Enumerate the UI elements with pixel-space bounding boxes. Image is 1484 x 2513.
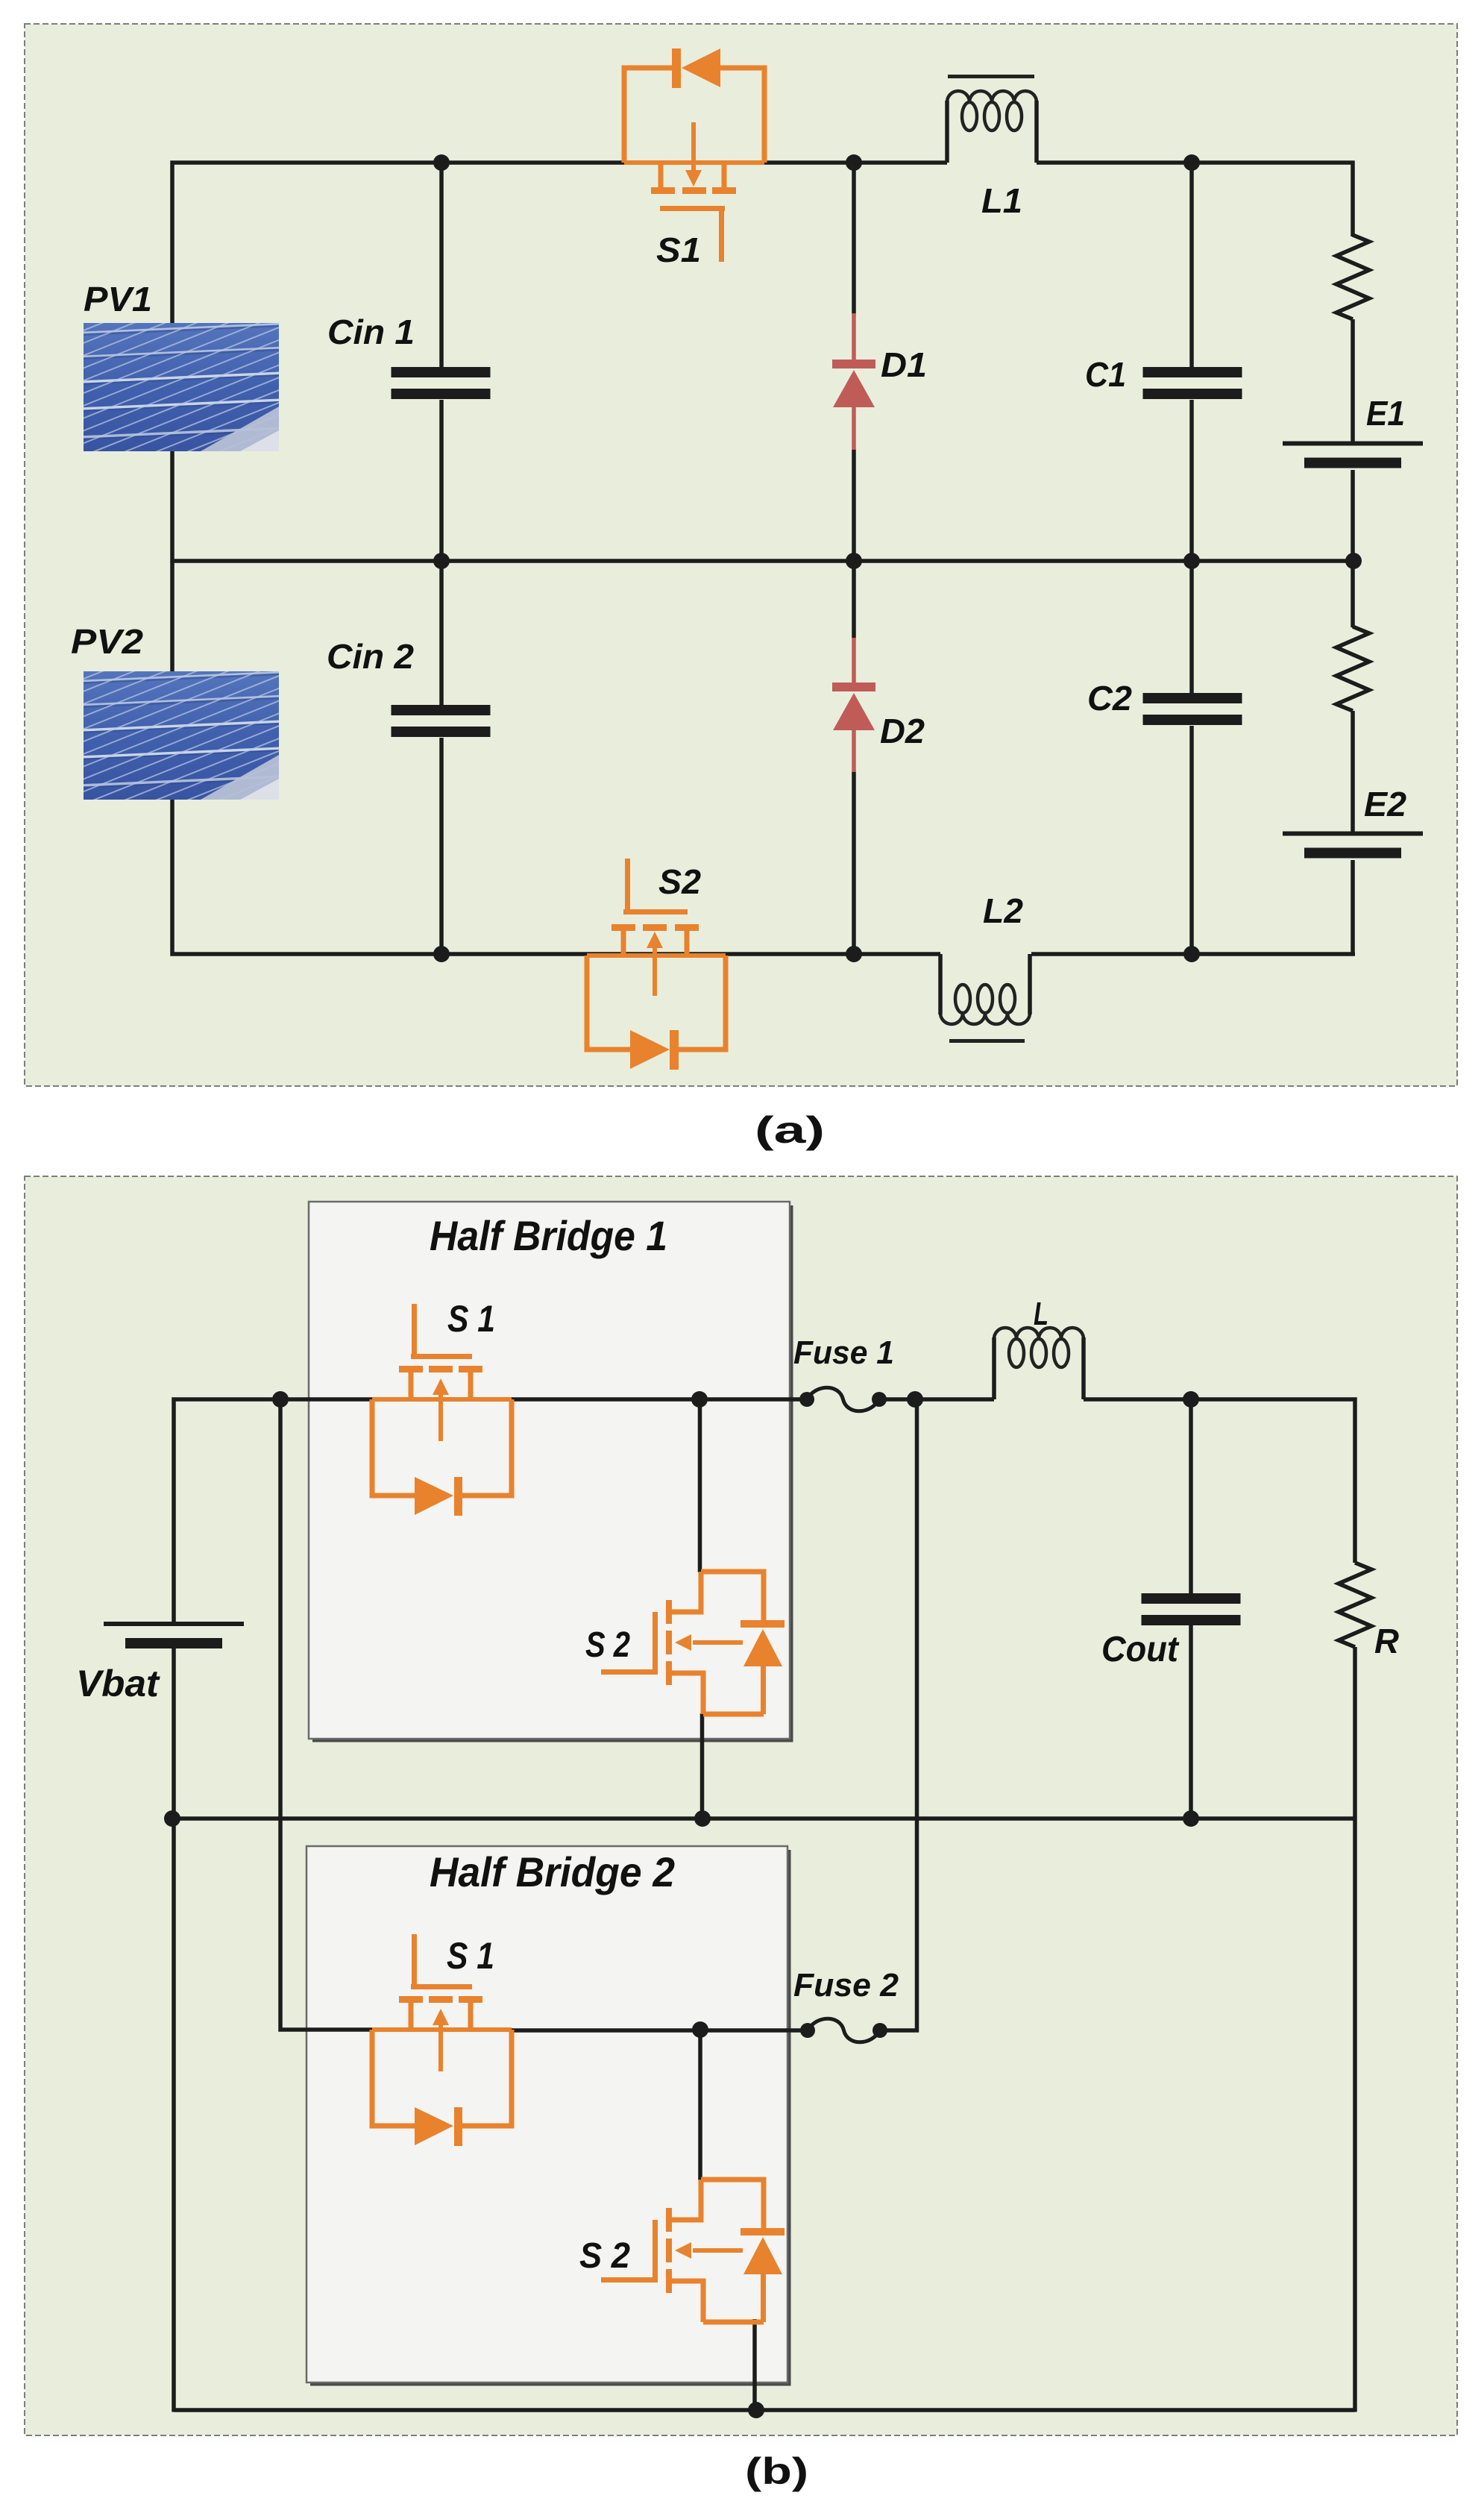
- PV1 solar panel image: [0, 313, 661, 462]
- svg-text:S 1: S 1: [447, 1298, 495, 1340]
- inductor L1 coil: [947, 91, 1037, 102]
- wire: Cout branch upper: [1189, 1399, 1193, 1594]
- diode D1: [852, 313, 856, 361]
- capacitor Cin2: [392, 705, 491, 715]
- node at (1227,1876): [907, 1391, 923, 1408]
- wire: left vertical PV2 bottom to bottom rail: [172, 798, 940, 954]
- node at (938,1876): [691, 1391, 708, 1408]
- diode D2: [852, 638, 856, 684]
- wire: C2 branch upper: [1189, 561, 1194, 694]
- node at (1014,3231): [748, 2402, 764, 2418]
- svg-text:L: L: [1034, 1296, 1048, 1332]
- wire: D1 branch lower black: [852, 449, 856, 561]
- svg-text:Cin 1: Cin 1: [327, 313, 415, 351]
- svg-text:Half Bridge 1: Half Bridge 1: [430, 1212, 667, 1259]
- node at (231,2438): [164, 1810, 180, 1827]
- svg-text:L2: L2: [983, 891, 1023, 930]
- svg-text:L1: L1: [981, 181, 1022, 220]
- resistor R: [1339, 1563, 1371, 1647]
- wire: Cout branch lower: [1189, 1625, 1193, 1819]
- wire: Cin2 branch upper: [439, 561, 444, 706]
- Half Bridge 2 box: [306, 1846, 787, 2382]
- svg-text:S 1: S 1: [447, 1935, 494, 1977]
- node at (1815,752): [1345, 553, 1362, 569]
- svg-text:PV2: PV2: [71, 622, 143, 661]
- node at (939,2721): [692, 2021, 708, 2038]
- PV2 solar panel image: [0, 661, 661, 810]
- capacitor Cout: [1142, 1593, 1241, 1604]
- battery E1: [1283, 442, 1423, 446]
- svg-text:S1: S1: [656, 230, 701, 269]
- wire: left vertical PV1 bottom to mid rail: [170, 451, 175, 562]
- wire: right branch E1 bottom: [1351, 470, 1355, 561]
- svg-text:E2: E2: [1364, 785, 1406, 823]
- wire: HB2 S2 source to bottom rail: [752, 2319, 757, 2410]
- svg-text:Vbat: Vbat: [76, 1663, 160, 1704]
- mosfet HB1 S1: [372, 1397, 512, 1402]
- svg-text:Half Bridge 2: Half Bridge 2: [430, 1848, 675, 1895]
- wire: left vertical mid rail to PV2 top: [170, 561, 175, 673]
- mosfet HB2 S1: [372, 2027, 512, 2032]
- capacitor C1: [1143, 367, 1242, 377]
- wire: right branch E2 bottom: [1351, 860, 1355, 956]
- node at (1598,752): [1183, 553, 1200, 569]
- capacitor C2: [1143, 693, 1242, 703]
- fuse Fuse1: [799, 1392, 814, 1407]
- wire: right branch E1 top: [1351, 161, 1355, 237]
- node at (1145,752): [846, 553, 862, 569]
- wire: D2 branch lower black: [852, 771, 856, 954]
- svg-text:S 2: S 2: [579, 2236, 630, 2276]
- mosfet HB2 S2: [701, 2180, 764, 2228]
- mosfet S1 with body diode: [624, 68, 673, 163]
- wire: mid rail: [172, 559, 1353, 563]
- Half Bridge 1 box: [309, 1202, 790, 1739]
- inductor L2 coil: [940, 1013, 1030, 1024]
- svg-text:R: R: [1374, 1622, 1399, 1660]
- inductor L2 core bar: [949, 1039, 1025, 1043]
- battery Vbat: [104, 1622, 244, 1626]
- mosfet HB1 S2: [701, 1572, 764, 1620]
- Half Bridge 1 box shadow: [312, 1205, 792, 1741]
- svg-text:Fuse 1: Fuse 1: [793, 1334, 894, 1371]
- wire: HB2 S2 drain: [698, 2030, 702, 2180]
- node at (592,752): [433, 553, 450, 569]
- wire: C1 branch lower: [1189, 400, 1194, 561]
- wire: bottom rail right of L2: [1031, 952, 1355, 956]
- wire: Cin1 branch upper: [439, 163, 444, 368]
- wire: C1 branch upper: [1189, 163, 1194, 368]
- svg-text:Cout: Cout: [1101, 1630, 1180, 1669]
- wire: top rail S1 to fuse1: [512, 1397, 807, 1402]
- battery E2: [1283, 832, 1423, 836]
- svg-text:S 2: S 2: [585, 1625, 630, 1665]
- resistor of E2 branch: [1336, 627, 1369, 711]
- wire: HB2 S1 to fuse2: [512, 2028, 808, 2033]
- wire: Cin2 branch lower: [439, 738, 444, 954]
- svg-text:(b): (b): [745, 2450, 808, 2492]
- svg-text:C1: C1: [1085, 355, 1126, 394]
- svg-text:E1: E1: [1366, 394, 1405, 433]
- svg-text:PV1: PV1: [84, 280, 152, 319]
- wire: C2 branch lower: [1189, 726, 1194, 954]
- wire: top rail between S1 and L1: [764, 160, 947, 165]
- inductor L coil: [994, 1328, 1084, 1339]
- node at (1145,1279): [846, 946, 862, 962]
- resistor of E1 branch: [1336, 235, 1369, 319]
- wire: top rail fuse1 to L: [879, 1397, 994, 1402]
- wire: top rail between L1 and right corner: [1037, 160, 1355, 165]
- node at (1598,1279): [1183, 946, 1200, 962]
- svg-text:(a): (a): [755, 1109, 825, 1151]
- wire: mid rail: [172, 1816, 1353, 1821]
- capacitor Cin1: [392, 367, 491, 377]
- svg-text:D1: D1: [881, 345, 927, 384]
- mosfet S2 with body diode: [587, 956, 631, 1050]
- panel (a) background: [25, 24, 1457, 1086]
- wire: D2 branch upper black: [852, 561, 856, 639]
- wire: top rail right of L: [1084, 1399, 1355, 1563]
- svg-text:S2: S2: [658, 862, 701, 901]
- node at (592,218): [433, 154, 450, 171]
- svg-text:Cin 2: Cin 2: [327, 637, 414, 676]
- wire: D1 branch upper black: [852, 163, 856, 314]
- wire: HB1 S2 source to mid rail: [700, 1713, 705, 1819]
- wire: feed to Half Bridge 2: [280, 1399, 374, 2030]
- inductor L1 core bar: [948, 75, 1034, 78]
- wire: R vertical mid: [1353, 1647, 1357, 2412]
- node at (376,1876): [272, 1391, 289, 1408]
- wire: top rail left segment + left vertical from PV chain: [172, 163, 624, 451]
- wire: right branch E2 mid: [1351, 711, 1355, 833]
- wire: Vbat top vertical: [174, 1399, 372, 1622]
- node at (1597,1876): [1183, 1391, 1199, 1408]
- node at (942,2438): [694, 1810, 711, 1827]
- wire: fuse2 to riser: [880, 1399, 917, 2030]
- wire: right branch E1 mid: [1351, 319, 1355, 443]
- wire: bottom rail: [174, 2408, 1355, 2412]
- wire: right branch E2 top: [1351, 561, 1355, 627]
- node at (1145,218): [846, 154, 862, 171]
- node at (592,1279): [433, 946, 450, 962]
- svg-text:D2: D2: [880, 712, 925, 750]
- Half Bridge 2 box shadow: [310, 1850, 790, 2385]
- wire: Vbat bottom vertical: [172, 1648, 176, 2412]
- wire: HB1 S2 drain from rail: [698, 1399, 702, 1572]
- svg-text:Fuse 2: Fuse 2: [793, 1967, 899, 2004]
- node at (1597,2438): [1183, 1810, 1199, 1827]
- wire: Cin1 branch lower: [439, 400, 444, 561]
- fuse Fuse2: [800, 2023, 815, 2038]
- svg-text:C2: C2: [1087, 679, 1132, 718]
- node at (1598,218): [1183, 154, 1200, 171]
- panel (b) background: [25, 1176, 1457, 2435]
